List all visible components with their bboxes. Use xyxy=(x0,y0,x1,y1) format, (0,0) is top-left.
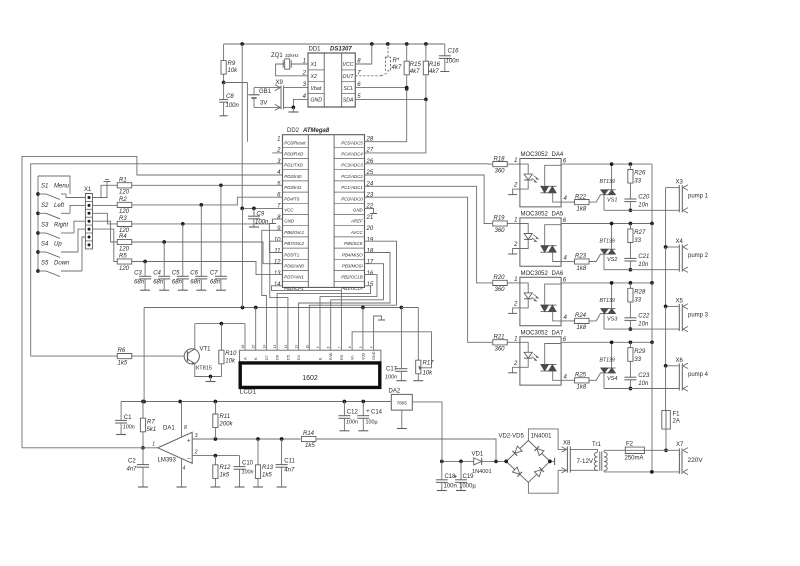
svg-text:VS4: VS4 xyxy=(607,376,617,382)
svg-text:SCL: SCL xyxy=(343,86,353,92)
resistor R11 200k xyxy=(214,402,216,415)
svg-text:1k8: 1k8 xyxy=(577,325,587,331)
svg-text:D6: D6 xyxy=(276,355,280,360)
svg-text:14: 14 xyxy=(274,282,281,288)
IC DD1 DS1307 xyxy=(308,53,355,107)
resistor R13 1k5 xyxy=(257,439,259,465)
svg-text:R26: R26 xyxy=(634,171,646,177)
svg-text:C2: C2 xyxy=(128,459,136,465)
svg-text:1k8: 1k8 xyxy=(577,266,587,272)
svg-text:R23: R23 xyxy=(575,254,587,260)
wire X5 pin1 to fuse rail xyxy=(666,305,680,307)
svg-text:OUT: OUT xyxy=(343,74,355,80)
wire VCC drop from DD2 pin7 to LCD rail xyxy=(242,208,244,307)
svg-text:10n: 10n xyxy=(638,381,649,387)
wire reset net R9/C8 to DD2 pin1 xyxy=(224,83,248,142)
ground at DA7 pin2 xyxy=(513,367,520,373)
svg-text:DS1307: DS1307 xyxy=(330,47,352,53)
resistor R2 120 xyxy=(93,204,118,206)
svg-text:pump 4: pump 4 xyxy=(688,372,709,378)
svg-text:MOC3052: MOC3052 xyxy=(521,271,549,277)
svg-text:pump 3: pump 3 xyxy=(688,312,709,318)
svg-text:28: 28 xyxy=(366,137,374,143)
svg-text:PC5/ADC5: PC5/ADC5 xyxy=(341,140,363,145)
svg-text:R21: R21 xyxy=(494,335,505,341)
svg-text:R28: R28 xyxy=(634,289,646,295)
svg-text:1N4001: 1N4001 xyxy=(472,469,492,475)
svg-text:R/W: R/W xyxy=(329,352,333,360)
svg-text:14: 14 xyxy=(262,345,266,349)
svg-text:10n: 10n xyxy=(638,262,649,268)
wire X6 pin1 to fuse rail xyxy=(666,365,680,367)
svg-text:12: 12 xyxy=(284,345,288,349)
LCD pin header xyxy=(240,350,381,362)
svg-text:3V: 3V xyxy=(260,101,267,107)
svg-text:PC1/ADC1: PC1/ADC1 xyxy=(341,185,363,190)
capacitor C12 100n xyxy=(343,402,345,416)
svg-text:X7: X7 xyxy=(676,442,684,448)
svg-text:16: 16 xyxy=(241,345,245,349)
svg-text:1: 1 xyxy=(514,158,517,164)
wire X8 to bridge bottom xyxy=(528,470,567,493)
svg-text:21: 21 xyxy=(366,215,374,221)
wire DD1 VCC pin8 to rail xyxy=(355,44,372,64)
svg-text:C9: C9 xyxy=(257,212,265,218)
svg-text:C1: C1 xyxy=(124,415,132,421)
ground below C5 xyxy=(178,289,188,291)
diode VD2 (bridge top-left) xyxy=(512,446,522,456)
svg-text:68n: 68n xyxy=(172,280,183,286)
svg-text:33: 33 xyxy=(634,297,641,303)
svg-text:100n: 100n xyxy=(346,420,358,426)
svg-text:LCD1: LCD1 xyxy=(240,389,257,396)
svg-text:Vbat: Vbat xyxy=(311,86,322,92)
svg-text:R9: R9 xyxy=(228,61,236,67)
svg-text:100n: 100n xyxy=(444,484,457,490)
LED inside DA4 xyxy=(520,164,528,174)
svg-text:10n: 10n xyxy=(638,321,649,327)
resistor R16 xyxy=(425,44,427,61)
wire 7805 input xyxy=(412,402,442,462)
connector X3 xyxy=(678,185,680,212)
wire live rail opto1 xyxy=(561,163,652,165)
resistor R27 33 xyxy=(629,224,631,229)
svg-text:2: 2 xyxy=(513,361,518,367)
wire VT1 emitter to ground xyxy=(195,364,222,377)
svg-text:Vo: Vo xyxy=(351,356,355,360)
svg-text:VS3: VS3 xyxy=(607,317,618,323)
wire +5V top rail xyxy=(224,43,445,45)
svg-text:PD3/Int1: PD3/Int1 xyxy=(284,185,302,190)
svg-text:8: 8 xyxy=(184,425,187,431)
ground below C6 xyxy=(196,289,206,291)
resistor R29 33 xyxy=(629,342,631,347)
wire DD2 pin26 to R18 xyxy=(365,163,488,165)
wire triac output rail to X3 xyxy=(604,209,679,211)
wire X1 pin1 to ground tick xyxy=(93,182,108,198)
wire SCL net DD1 pin6 to DD2 pin28 xyxy=(355,87,406,89)
switch S3 Right xyxy=(38,232,46,234)
optocoupler opto2 MOC3052 DA5 xyxy=(520,218,561,266)
svg-text:C4: C4 xyxy=(153,271,161,277)
wire live rail opto4 xyxy=(561,341,652,343)
svg-text:X2: X2 xyxy=(310,74,317,80)
capacitor C14 100u electrolytic xyxy=(362,402,364,416)
wire +5V LCD rail xyxy=(144,307,418,309)
svg-text:+: + xyxy=(366,408,370,415)
svg-text:100n: 100n xyxy=(242,470,254,476)
resistor R24 1k8 xyxy=(561,320,574,322)
svg-text:11: 11 xyxy=(295,345,299,349)
svg-text:PD2/Int0: PD2/Int0 xyxy=(284,174,302,179)
svg-text:VT1: VT1 xyxy=(200,347,212,353)
connector X6 xyxy=(678,363,680,390)
svg-text:10: 10 xyxy=(305,345,309,349)
svg-text:MOC3052: MOC3052 xyxy=(521,330,549,336)
wire live rail opto2 xyxy=(561,223,652,225)
svg-text:S5: S5 xyxy=(41,261,49,267)
svg-text:R16: R16 xyxy=(429,62,441,68)
svg-text:R3: R3 xyxy=(119,216,127,222)
LCD module LCD1 1602 xyxy=(240,363,380,388)
svg-text:C12: C12 xyxy=(347,410,359,416)
svg-text:D7: D7 xyxy=(265,355,269,360)
svg-text:Tr1: Tr1 xyxy=(592,442,601,448)
svg-text:PC6/Reset: PC6/Reset xyxy=(284,140,306,145)
svg-text:R11: R11 xyxy=(220,414,231,420)
svg-text:R25: R25 xyxy=(575,373,587,379)
svg-text:3: 3 xyxy=(195,433,198,439)
svg-text:1k8: 1k8 xyxy=(577,385,587,391)
wire triac output rail to X4 xyxy=(604,269,679,271)
svg-text:1602: 1602 xyxy=(302,375,318,382)
wire DD2 pin18 to LCD xyxy=(299,253,390,351)
capacitor C7 68n xyxy=(220,185,222,276)
svg-text:X6: X6 xyxy=(676,358,684,364)
svg-text:C14: C14 xyxy=(371,410,383,416)
svg-text:PC4/ADC4: PC4/ADC4 xyxy=(341,152,363,157)
photo-triac inside DA7 xyxy=(541,364,557,366)
svg-text:1: 1 xyxy=(277,137,280,143)
svg-text:7805: 7805 xyxy=(397,400,408,405)
svg-text:68n: 68n xyxy=(153,280,164,286)
svg-text:BT139: BT139 xyxy=(600,179,615,185)
svg-text:1k5: 1k5 xyxy=(305,443,315,449)
wire triac output rail to X6 xyxy=(604,388,679,390)
svg-text:MOC3052: MOC3052 xyxy=(521,212,549,218)
connector X5 xyxy=(678,304,680,331)
svg-text:15: 15 xyxy=(252,345,256,349)
svg-text:10: 10 xyxy=(274,237,281,243)
triac VS2 BT139 xyxy=(611,224,613,250)
svg-text:R13: R13 xyxy=(262,465,274,471)
resistor R* dashed xyxy=(355,75,381,77)
svg-text:DA1: DA1 xyxy=(163,426,175,432)
switch S4 Up xyxy=(38,251,46,253)
svg-text:PD0/RXD: PD0/RXD xyxy=(284,152,304,157)
svg-text:PB6/Osc1: PB6/Osc1 xyxy=(284,230,304,235)
svg-text:R6: R6 xyxy=(118,348,126,354)
svg-text:PD4/T0: PD4/T0 xyxy=(284,196,299,201)
svg-text:5k1: 5k1 xyxy=(147,427,157,433)
resistor R6 1k5 xyxy=(31,355,118,357)
svg-text:GB1: GB1 xyxy=(259,89,272,95)
svg-text:VS1: VS1 xyxy=(607,198,617,204)
svg-text:PC2/ADC2: PC2/ADC2 xyxy=(341,174,363,179)
svg-text:R4: R4 xyxy=(119,234,127,240)
wire +5V to LCD Vdd slot (right) xyxy=(362,308,364,351)
svg-text:R12: R12 xyxy=(220,465,232,471)
wire R4 row to DD2 pin12 xyxy=(132,242,283,264)
svg-text:20: 20 xyxy=(366,226,374,232)
resistor R1 120 xyxy=(93,185,118,197)
svg-text:PD6/AIN0: PD6/AIN0 xyxy=(284,264,304,269)
svg-text:X1: X1 xyxy=(310,62,317,68)
svg-text:33: 33 xyxy=(634,179,641,185)
svg-text:C19: C19 xyxy=(463,474,475,480)
svg-text:DA2: DA2 xyxy=(389,388,401,394)
resistor R22 1k8 xyxy=(561,201,574,203)
diode VD1 1N4001 xyxy=(474,458,482,465)
svg-text:R27: R27 xyxy=(634,230,646,236)
capacitor C5 68n xyxy=(182,224,184,276)
svg-text:C10: C10 xyxy=(242,461,254,467)
wire gate to VS3 xyxy=(589,314,600,321)
svg-text:100n: 100n xyxy=(226,103,240,109)
svg-text:2: 2 xyxy=(194,450,198,456)
svg-text:250mA: 250mA xyxy=(625,456,644,462)
diode VD5 (bridge bottom-right) xyxy=(534,467,544,477)
svg-text:R7: R7 xyxy=(147,420,155,426)
svg-text:C16: C16 xyxy=(448,49,460,55)
svg-text:R1: R1 xyxy=(119,177,127,183)
svg-text:C11: C11 xyxy=(284,459,295,465)
svg-text:4k7: 4k7 xyxy=(392,65,402,71)
svg-text:+: + xyxy=(454,474,458,481)
resistor R14 1k5 xyxy=(301,436,316,441)
ground below C9 xyxy=(249,226,259,228)
svg-text:DA6: DA6 xyxy=(552,271,564,277)
optocoupler opto4 MOC3052 DA7 xyxy=(520,337,561,385)
ground below C7 xyxy=(216,289,226,291)
ground below DD1 pin4 xyxy=(292,107,294,112)
wire X4 pin1 to fuse rail xyxy=(666,246,680,248)
svg-text:GND: GND xyxy=(353,208,364,213)
wire gate to VS4 xyxy=(589,373,600,380)
svg-text:C22: C22 xyxy=(638,313,650,319)
wire DD2 pin25 to R19 xyxy=(365,175,488,224)
wire DD2 pin19 to LCD xyxy=(309,241,396,350)
resistor R28 33 xyxy=(629,283,631,288)
switch S2 Left xyxy=(38,212,46,214)
svg-text:7: 7 xyxy=(337,346,341,348)
capacitor C19 1000u electrolytic xyxy=(460,461,462,479)
svg-text:SDA: SDA xyxy=(343,98,354,104)
fuse F1 2A xyxy=(662,410,671,429)
svg-text:4: 4 xyxy=(183,466,186,472)
svg-text:1k5: 1k5 xyxy=(220,473,230,479)
svg-text:LM393: LM393 xyxy=(158,458,177,464)
svg-text:2: 2 xyxy=(302,70,307,76)
transistor VT1 KT815 xyxy=(132,355,188,357)
resistor R19 360 xyxy=(488,223,492,225)
svg-text:16: 16 xyxy=(367,271,374,277)
svg-text:D4: D4 xyxy=(297,355,301,360)
LED inside DA6 xyxy=(520,283,528,293)
wire DD2 pin15 to LCD xyxy=(277,286,370,350)
svg-text:DA7: DA7 xyxy=(552,330,564,336)
LED inside DA5 xyxy=(520,224,528,234)
wire VCC vertical to DD2 pin7 xyxy=(242,44,282,208)
svg-text:17: 17 xyxy=(367,260,374,266)
svg-text:R18: R18 xyxy=(494,156,506,162)
svg-text:200k: 200k xyxy=(219,422,234,428)
svg-text:ATMega8: ATMega8 xyxy=(302,128,330,134)
svg-text:Vdd: Vdd xyxy=(361,353,365,360)
svg-text:GND: GND xyxy=(372,351,376,360)
capacitor C17 100n xyxy=(400,308,402,369)
svg-text:6: 6 xyxy=(348,346,352,348)
wire DD2 pin8 GND xyxy=(273,219,283,223)
resistor R18 360 xyxy=(488,163,492,165)
svg-text:DA4: DA4 xyxy=(552,152,564,158)
capacitor C1 100n xyxy=(120,402,122,421)
svg-text:100n: 100n xyxy=(255,220,269,226)
svg-text:PD1/TXD: PD1/TXD xyxy=(284,163,303,168)
photo-triac inside DA5 xyxy=(541,245,557,247)
potentiometer R17 10k xyxy=(417,308,419,361)
wire DA1 - input xyxy=(192,455,239,457)
capacitor C20 10n xyxy=(624,198,636,200)
svg-text:33: 33 xyxy=(634,357,641,363)
wire DD2 pin24 to R20 xyxy=(365,186,488,283)
svg-text:9: 9 xyxy=(316,346,320,348)
svg-text:C5: C5 xyxy=(172,271,180,277)
svg-text:1: 1 xyxy=(514,336,517,342)
svg-text:1: 1 xyxy=(152,442,155,448)
capacitor C23 10n xyxy=(624,376,636,378)
svg-text:MOC3052: MOC3052 xyxy=(521,152,549,158)
wire +5V to LCD Vdd slot (left) xyxy=(255,308,257,351)
wire R2 row to DD2 pin6 xyxy=(132,197,283,205)
connector X4 xyxy=(678,245,680,272)
svg-text:R5: R5 xyxy=(119,254,127,260)
svg-text:100n: 100n xyxy=(446,59,460,65)
wire R1 row to DD2 pin5 xyxy=(132,184,283,186)
svg-text:R2: R2 xyxy=(119,197,127,203)
svg-text:S2: S2 xyxy=(41,203,49,209)
svg-text:2: 2 xyxy=(513,242,518,248)
svg-text:R14: R14 xyxy=(303,431,315,437)
wire triac output rail to X5 xyxy=(604,328,679,330)
wire DD2 pin17 to LCD xyxy=(331,264,384,351)
svg-text:100n: 100n xyxy=(123,425,135,431)
svg-text:DA5: DA5 xyxy=(552,212,564,218)
svg-text:100µ: 100µ xyxy=(366,420,378,426)
svg-text:1: 1 xyxy=(303,59,306,65)
svg-text:4: 4 xyxy=(370,346,374,348)
svg-text:AREF: AREF xyxy=(350,219,363,224)
svg-text:PD5/T1: PD5/T1 xyxy=(284,252,299,257)
op-amp DA1 LM393 xyxy=(158,432,192,463)
resistor R10 10k xyxy=(220,324,222,351)
svg-text:10n: 10n xyxy=(638,203,649,209)
ground at DA4 pin2 xyxy=(513,189,520,195)
svg-text:13: 13 xyxy=(273,345,277,349)
svg-text:68n: 68n xyxy=(134,280,145,286)
svg-text:1k5: 1k5 xyxy=(262,473,272,479)
svg-text:8: 8 xyxy=(327,346,331,348)
svg-text:4n7: 4n7 xyxy=(127,467,138,473)
voltage regulator DA2 7805 xyxy=(391,394,412,410)
wire SDA net DD1 pin5 to DD2 pin27 xyxy=(355,98,426,100)
svg-text:10k: 10k xyxy=(423,371,434,377)
resistor R4 120 xyxy=(93,221,118,242)
resistor R9 xyxy=(223,44,225,61)
bridge rectifier VD2-VD5 1N4001 xyxy=(506,440,550,482)
crystal ZQ1 32kHz xyxy=(291,63,308,65)
svg-text:ZQ1: ZQ1 xyxy=(271,53,283,59)
svg-text:2A: 2A xyxy=(673,419,680,425)
ground below C3 xyxy=(140,289,150,291)
capacitor C6 68n xyxy=(200,205,202,276)
wire X7 bottom row xyxy=(604,471,679,473)
capacitor C9 xyxy=(253,208,255,216)
svg-text:R24: R24 xyxy=(575,313,587,319)
resistor R3 120 xyxy=(93,213,118,224)
LED inside DA7 xyxy=(520,342,528,352)
svg-text:КТ815: КТ815 xyxy=(196,366,212,372)
capacitor C22 10n xyxy=(624,317,636,319)
svg-text:BT139: BT139 xyxy=(600,298,615,304)
connector X8 7-12V xyxy=(566,446,568,472)
svg-text:R22: R22 xyxy=(575,194,587,200)
svg-text:4n7: 4n7 xyxy=(284,468,295,474)
svg-text:10k: 10k xyxy=(228,68,239,74)
svg-text:R*: R* xyxy=(393,58,400,64)
svg-text:+: + xyxy=(187,439,191,445)
diode VD3 (bridge top-right) xyxy=(534,446,544,456)
triac VS4 BT139 xyxy=(611,342,613,368)
fuse F2 250mA xyxy=(625,447,644,453)
svg-text:1k5: 1k5 xyxy=(118,361,128,367)
resistor R25 1k8 xyxy=(561,379,574,381)
svg-text:360: 360 xyxy=(495,168,506,174)
svg-text:X8: X8 xyxy=(563,441,571,447)
svg-text:Menu: Menu xyxy=(54,184,70,190)
resistor R12 1k5 xyxy=(214,456,216,465)
wire DD2 pin10 to LCD xyxy=(270,241,288,350)
IC DD2 ATMega8 xyxy=(283,135,365,288)
resistor R20 360 xyxy=(488,282,492,284)
wire DD1 pin4 GND xyxy=(293,99,308,107)
svg-text:VCC: VCC xyxy=(284,208,294,213)
svg-text:RS: RS xyxy=(340,354,344,360)
svg-text:C20: C20 xyxy=(638,195,650,201)
resistor R23 1k8 xyxy=(561,261,574,263)
svg-text:S4: S4 xyxy=(41,242,49,248)
wire zero-cross sense to R14 xyxy=(317,439,496,461)
svg-text:360: 360 xyxy=(495,287,506,293)
wire gate to VS1 xyxy=(589,195,600,202)
svg-text:7-12V: 7-12V xyxy=(577,458,594,465)
capacitor C16 top right xyxy=(444,44,446,56)
svg-text:C23: C23 xyxy=(638,373,650,379)
svg-text:PB3/MOSI: PB3/MOSI xyxy=(342,264,364,269)
svg-text:33: 33 xyxy=(634,238,641,244)
resistor R21 360 xyxy=(488,341,492,343)
wire VT1 collector to LCD backlight xyxy=(194,324,196,349)
